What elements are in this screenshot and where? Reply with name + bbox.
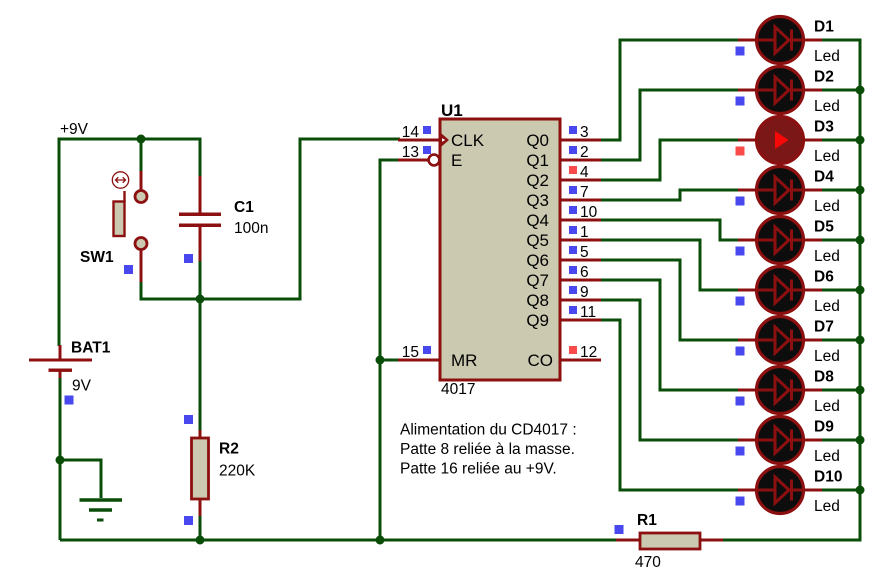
origin marker BAT1 bbox=[65, 396, 74, 405]
svg-text:D9: D9 bbox=[814, 419, 834, 436]
svg-text:Led: Led bbox=[814, 448, 840, 465]
svg-text:9V: 9V bbox=[72, 378, 92, 395]
svg-text:MR: MR bbox=[451, 351, 477, 370]
pin 12 CO stub bbox=[559, 359, 601, 362]
origin marker R2 top bbox=[184, 415, 193, 424]
svg-text:D2: D2 bbox=[814, 69, 834, 86]
pin Q8 stub bbox=[559, 299, 601, 302]
svg-text:D4: D4 bbox=[814, 169, 834, 186]
marker pin 14 bbox=[423, 126, 431, 134]
wire junction down to R2 top bbox=[199, 299, 202, 431]
svg-text:12: 12 bbox=[580, 344, 597, 361]
junction MR / E net bbox=[376, 356, 385, 365]
wire Q6 to D7 anode bbox=[600, 260, 738, 340]
svg-text:13: 13 bbox=[402, 144, 419, 161]
marker pin 15 bbox=[423, 346, 431, 354]
origin marker D7 bbox=[736, 347, 745, 356]
junction cathode bus D4 bbox=[856, 186, 865, 195]
svg-text:Led: Led bbox=[814, 498, 840, 515]
svg-text:Q3: Q3 bbox=[526, 191, 549, 210]
svg-text:Q7: Q7 bbox=[526, 271, 549, 290]
origin marker D9 bbox=[736, 447, 745, 456]
marker pin 4 bbox=[569, 166, 577, 174]
svg-text:Led: Led bbox=[814, 148, 840, 165]
wire Q1 to D2 anode bbox=[600, 90, 738, 160]
wire D7 cathode to bus bbox=[822, 339, 860, 342]
wire D9 cathode to bus bbox=[822, 439, 860, 442]
LED D10 bbox=[738, 467, 822, 514]
marker pin 13 bbox=[423, 146, 431, 154]
wire D10 cathode to bus bbox=[822, 489, 860, 492]
wire R2 bottom to ground rail bbox=[199, 515, 202, 540]
junction cathode bus D6 bbox=[856, 286, 865, 295]
svg-text:3: 3 bbox=[580, 124, 589, 141]
marker pin 9 bbox=[569, 286, 577, 294]
marker pin 5 bbox=[569, 246, 577, 254]
capacitor C1 bbox=[179, 176, 221, 261]
origin marker D1 bbox=[736, 47, 745, 56]
wire C1 bottom to junction bbox=[199, 261, 202, 299]
LED D8 bbox=[738, 367, 822, 414]
svg-text:Alimentation du CD4017 :: Alimentation du CD4017 : bbox=[400, 422, 577, 439]
marker pin 11 bbox=[569, 306, 577, 314]
LED D4 bbox=[738, 167, 822, 214]
op-amp U1 body (CD4017 counter) bbox=[440, 119, 560, 380]
origin marker R1 bbox=[615, 525, 624, 534]
svg-text:R1: R1 bbox=[637, 512, 657, 529]
svg-text:+9V: +9V bbox=[60, 121, 89, 138]
svg-text:100n: 100n bbox=[234, 220, 268, 237]
svg-text:Q2: Q2 bbox=[526, 171, 549, 190]
origin marker D3 bbox=[736, 147, 745, 156]
wire D5 cathode to bus bbox=[822, 239, 860, 242]
svg-text:C1: C1 bbox=[234, 199, 254, 216]
LED D7 bbox=[738, 317, 822, 364]
pin Q4 stub bbox=[559, 219, 601, 222]
wire D3 cathode to bus bbox=[822, 139, 860, 142]
svg-text:Q9: Q9 bbox=[526, 311, 549, 330]
svg-text:U1: U1 bbox=[441, 101, 463, 120]
U1 clock input wedge bbox=[442, 134, 450, 147]
wire D2 cathode to bus bbox=[822, 89, 860, 92]
junction cathode bus D7 bbox=[856, 336, 865, 345]
marker pin 1 bbox=[569, 226, 577, 234]
wire D4 cathode to bus bbox=[822, 189, 860, 192]
wire Q2 to D3 anode bbox=[600, 140, 738, 180]
junction battery / ground symbol bbox=[56, 456, 65, 465]
wire Q3 to D4 anode bbox=[600, 190, 738, 200]
pin Q9 stub bbox=[559, 319, 601, 322]
junction C1 / SW1 / R2 / clock net bbox=[196, 295, 205, 304]
svg-text:Q4: Q4 bbox=[526, 211, 549, 230]
wire bottom ground rail to R1 bbox=[60, 539, 617, 542]
svg-text:D5: D5 bbox=[814, 219, 834, 236]
svg-text:Led: Led bbox=[814, 348, 840, 365]
svg-text:7: 7 bbox=[580, 184, 589, 201]
svg-text:2: 2 bbox=[580, 144, 589, 161]
junction cathode bus D2 bbox=[856, 86, 865, 95]
junction E net / ground rail bbox=[376, 536, 385, 545]
marker pin 7 bbox=[569, 186, 577, 194]
svg-text:D7: D7 bbox=[814, 319, 834, 336]
battery BAT1 bbox=[29, 345, 92, 378]
wire Q4 to D5 anode bbox=[600, 220, 738, 240]
svg-text:SW1: SW1 bbox=[80, 249, 114, 266]
svg-text:Led: Led bbox=[814, 48, 840, 65]
svg-text:14: 14 bbox=[402, 124, 420, 141]
wire Q8 to D9 anode bbox=[600, 300, 738, 440]
svg-text:D10: D10 bbox=[814, 469, 842, 486]
svg-text:BAT1: BAT1 bbox=[71, 340, 111, 357]
svg-text:D1: D1 bbox=[814, 19, 834, 36]
svg-text:Led: Led bbox=[814, 248, 840, 265]
svg-text:6: 6 bbox=[580, 264, 589, 281]
origin marker D5 bbox=[736, 247, 745, 256]
wire MR pin to E net bbox=[380, 359, 400, 362]
svg-text:15: 15 bbox=[402, 344, 419, 361]
svg-text:Q6: Q6 bbox=[526, 251, 549, 270]
resistor R1 bbox=[616, 533, 723, 549]
svg-text:Led: Led bbox=[814, 298, 840, 315]
svg-text:4: 4 bbox=[580, 164, 589, 181]
origin marker SW1 bbox=[124, 265, 133, 274]
U1 pin E (13) bubble bbox=[429, 155, 440, 166]
pin Q1 stub bbox=[559, 159, 601, 162]
svg-text:D3: D3 bbox=[814, 119, 834, 136]
wire D6 cathode to bus bbox=[822, 289, 860, 292]
pin Q3 stub bbox=[559, 199, 601, 202]
ground bbox=[80, 500, 123, 520]
marker pin 6 bbox=[569, 266, 577, 274]
svg-text:Led: Led bbox=[814, 398, 840, 415]
pin Q2 stub bbox=[559, 179, 601, 182]
pin Q0 stub bbox=[559, 139, 601, 142]
svg-text:1: 1 bbox=[580, 224, 589, 241]
origin marker C1 bbox=[184, 254, 193, 263]
svg-text:D8: D8 bbox=[814, 369, 834, 386]
svg-text:Q5: Q5 bbox=[526, 231, 549, 250]
pin Q5 stub bbox=[559, 239, 601, 242]
svg-text:Patte 16 reliée au +9V.: Patte 16 reliée au +9V. bbox=[400, 461, 557, 478]
pin 13 E stub bbox=[398, 159, 428, 162]
LED D9 bbox=[738, 417, 822, 464]
wire D8 cathode to bus bbox=[822, 389, 860, 392]
junction R2 / ground rail bbox=[196, 536, 205, 545]
resistor R2 bbox=[192, 430, 209, 516]
marker pin 12 bbox=[569, 346, 577, 354]
svg-text:Q1: Q1 bbox=[526, 151, 549, 170]
svg-text:Led: Led bbox=[814, 198, 840, 215]
LED D2 bbox=[738, 67, 822, 114]
svg-text:Q0: Q0 bbox=[526, 131, 549, 150]
wire Q5 to D6 anode bbox=[600, 240, 738, 290]
LED D3 bbox=[738, 117, 822, 164]
junction +9V rail / SW1 bbox=[137, 135, 146, 144]
svg-text:220K: 220K bbox=[219, 463, 256, 480]
svg-text:CO: CO bbox=[528, 351, 554, 370]
LED D1 bbox=[738, 17, 822, 64]
wire Q7 to D8 anode bbox=[600, 280, 738, 390]
marker pin 2 bbox=[569, 146, 577, 154]
svg-text:Led: Led bbox=[814, 98, 840, 115]
marker pin 10 bbox=[569, 206, 577, 214]
svg-text:11: 11 bbox=[580, 304, 596, 321]
wire branch to ground symbol bbox=[60, 460, 101, 498]
junction cathode bus D3 bbox=[856, 136, 865, 145]
origin marker D10 bbox=[736, 497, 745, 506]
wire Q9 to D10 anode bbox=[600, 320, 738, 490]
pin Q6 stub bbox=[559, 259, 601, 262]
wire SW1 bottom / clock net to CLK pin bbox=[141, 139, 400, 299]
svg-text:9: 9 bbox=[580, 284, 589, 301]
junction cathode bus D10 bbox=[856, 486, 865, 495]
junction cathode bus D8 bbox=[856, 386, 865, 395]
svg-text:CLK: CLK bbox=[451, 131, 485, 150]
pin 15 MR stub bbox=[398, 359, 441, 362]
svg-text:Patte 8 reliée à la masse.: Patte 8 reliée à la masse. bbox=[400, 441, 575, 458]
svg-text:E: E bbox=[451, 151, 462, 170]
wire Q0 to D1 anode bbox=[600, 40, 738, 140]
switch SW1 bbox=[112, 171, 147, 282]
marker pin 3 bbox=[569, 126, 577, 134]
svg-text:R2: R2 bbox=[219, 441, 239, 458]
wire +9V rail: battery top to C1 top bbox=[59, 139, 200, 346]
junction cathode bus D5 bbox=[856, 236, 865, 245]
wire E pin down to ground rail bbox=[380, 160, 400, 540]
pin 14 CLK stub bbox=[398, 139, 441, 142]
wire junction to SW1 top bbox=[140, 139, 143, 172]
pin Q7 stub bbox=[559, 279, 601, 282]
wire R1 right up cathode bus to D1 bbox=[723, 40, 860, 540]
origin marker D4 bbox=[736, 197, 745, 206]
origin marker D2 bbox=[736, 97, 745, 106]
LED D5 bbox=[738, 217, 822, 264]
wire battery negative down to ground rail bbox=[59, 376, 62, 540]
svg-text:10: 10 bbox=[580, 204, 598, 221]
origin marker D6 bbox=[736, 297, 745, 306]
svg-text:4017: 4017 bbox=[441, 381, 475, 398]
origin marker D8 bbox=[736, 397, 745, 406]
LED D6 bbox=[738, 267, 822, 314]
origin marker R2 bottom bbox=[184, 516, 193, 525]
svg-text:470: 470 bbox=[635, 554, 661, 571]
junction cathode bus D9 bbox=[856, 436, 865, 445]
svg-text:5: 5 bbox=[580, 244, 589, 261]
svg-text:Q8: Q8 bbox=[526, 291, 549, 310]
svg-text:D6: D6 bbox=[814, 269, 834, 286]
